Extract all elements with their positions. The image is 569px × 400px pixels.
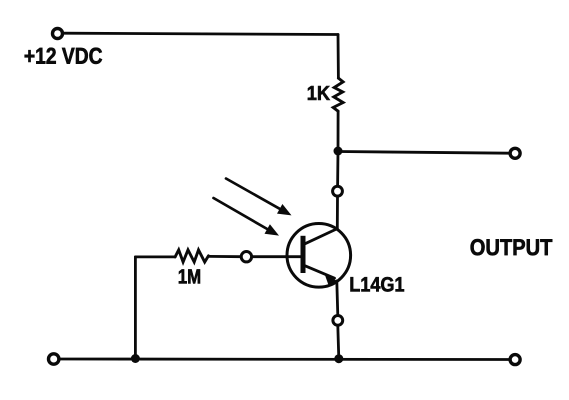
transistor Q1 emitter stroke xyxy=(303,265,335,278)
wire emitter down to emitter pin xyxy=(337,281,338,316)
wire output from node A to terminal T2 xyxy=(338,152,510,154)
resistor R1 1K (vertical zigzag) xyxy=(333,78,343,111)
transistor Q1 base bar xyxy=(301,236,306,273)
node A (junction dot) xyxy=(334,147,343,156)
pin base (open circle on base lead) xyxy=(241,252,251,262)
transistor Q1 L14G1 (envelope circle) xyxy=(287,224,351,288)
label 1K (value of R1) xyxy=(308,86,330,100)
wire vertical from top rail to resistor R1 xyxy=(337,35,340,79)
label L14G1 (transistor part number) xyxy=(351,277,405,292)
terminal T3 (bottom left, open circle) xyxy=(49,354,59,364)
label +12 VDC xyxy=(25,48,102,64)
light arrow 2 (lower photon arrow) xyxy=(214,198,280,236)
pin collector (small open circle) xyxy=(333,186,343,196)
wire base pin to resistor R2 xyxy=(209,255,242,258)
wire from R2 left to corner xyxy=(135,255,175,258)
wire collector pin to transistor Q1 xyxy=(336,196,339,228)
terminal T2 (output, open circle right) xyxy=(510,148,520,158)
terminal T1 (+12VDC input, open circle) xyxy=(53,29,63,39)
transistor Q1 collector stroke xyxy=(303,229,337,245)
wire emitter pin to bottom rail xyxy=(338,326,339,359)
pin emitter (small open circle) xyxy=(333,316,343,326)
transistor Q1 emitter arrowhead xyxy=(324,273,337,285)
wire from R1 to node A xyxy=(337,111,340,151)
node B (junction dot bottom center) xyxy=(334,354,343,363)
node C (junction dot bottom left) xyxy=(131,354,140,363)
label 1M (value of R2) xyxy=(179,269,200,283)
terminal T4 (bottom right, open circle) xyxy=(510,355,520,365)
wire top rail from T1 to vertical drop xyxy=(63,33,339,34)
wire node A down to collector pin xyxy=(336,151,339,186)
wire bottom rail xyxy=(59,358,510,361)
wire vertical left branch down to bottom rail xyxy=(134,257,137,359)
label OUTPUT xyxy=(471,239,553,255)
light arrow 1 (upper photon arrow) xyxy=(226,179,292,216)
resistor R2 1M (horizontal zigzag) xyxy=(175,250,208,262)
wire base: transistor to base pin circle xyxy=(252,255,303,258)
